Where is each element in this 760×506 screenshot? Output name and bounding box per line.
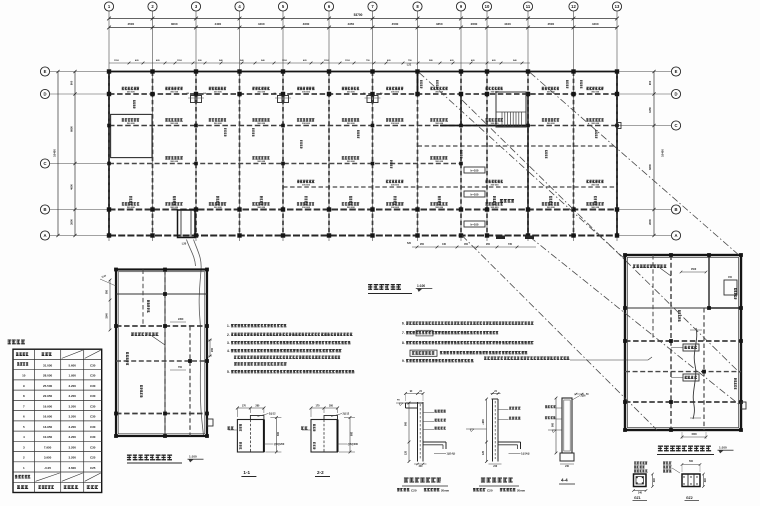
svg-text:C20: C20 [487,488,493,492]
roof detail plan: right wall tab [741,402,746,409]
machine room plan: small labels and dims [147,300,150,313]
machine room plan: left outside dims [109,280,111,330]
svg-text:600: 600 [351,431,354,436]
svg-text:19.950: 19.950 [43,404,53,408]
svg-text:3.: 3. [227,341,230,345]
main plan: row C-mid beam [109,163,461,165]
svg-text:4500: 4500 [547,22,554,26]
main plan: three slab boxes h=100 [464,167,485,173]
svg-text:10400: 10400 [53,149,57,157]
svg-text:950: 950 [106,289,109,294]
svg-text:300 600: 300 600 [347,161,356,163]
svg-text:300 600: 300 600 [591,123,600,125]
svg-text:300 600: 300 600 [302,185,311,187]
svg-text:300 600: 300 600 [257,123,266,125]
svg-text:3.200: 3.200 [68,456,76,460]
main plan: column squares [107,69,111,73]
svg-text:D: D [674,92,677,97]
svg-text:300 600: 300 600 [170,207,179,209]
svg-text:1540: 1540 [106,313,109,319]
svg-text:300 600: 300 600 [214,207,223,209]
svg-text:1.950: 1.950 [68,374,76,378]
svg-text:300 600: 300 600 [347,207,356,209]
svg-text:300 600: 300 600 [547,207,556,209]
svg-text:300 600: 300 600 [170,92,179,94]
svg-text:4350: 4350 [347,22,354,26]
svg-text:16.950: 16.950 [43,415,53,419]
main plan: secondary top dimension line [109,62,530,64]
svg-text:6.: 6. [402,322,405,326]
roof detail plan: rotated side labels [734,288,737,299]
svg-text:300 600: 300 600 [127,207,136,209]
svg-text:E: E [44,69,47,74]
svg-text:300 600: 300 600 [591,207,600,209]
svg-text:120: 120 [482,450,485,455]
svg-text:22.950: 22.950 [43,394,53,398]
svg-text:6950: 6950 [70,126,74,132]
main plan: scattered rotated dims [133,100,135,109]
main plan: vertical beams on grid lines [108,72,110,236]
svg-text:C30: C30 [90,374,96,378]
svg-text:450: 450 [464,243,469,246]
svg-text:1:100: 1:100 [719,446,727,450]
svg-text:1510: 1510 [177,60,183,62]
machine room plan: outer walls [116,270,207,437]
roof detail plan: outer walls [625,255,741,430]
svg-text:300 600: 300 600 [491,123,500,125]
svg-text:C25: C25 [90,456,96,460]
svg-text:7.950: 7.950 [44,445,52,449]
main plan: stair treads near grid 9-11 [496,92,526,127]
machine room plan: mesh leader label [131,333,158,336]
main plan: row D beam [109,93,617,95]
svg-text:300 600: 300 600 [591,185,600,187]
svg-text:240: 240 [704,478,707,483]
section 2-2 [311,420,338,453]
svg-text:3.200: 3.200 [68,435,76,439]
svg-text:5.: 5. [227,370,230,374]
svg-text:4-4: 4-4 [561,478,568,483]
main plan: row C beam [109,125,617,127]
main plan: row B heavy beam wall [109,209,617,211]
svg-text:500: 500 [689,460,694,463]
svg-text:4100: 4100 [504,22,511,26]
svg-text:12: 12 [571,4,576,9]
floor height table title [8,340,25,345]
svg-text:300 600: 300 600 [170,123,179,125]
svg-text:280: 280 [329,405,334,408]
svg-text:300 600: 300 600 [127,123,136,125]
machine room plan: column squares [114,268,118,272]
svg-text:300 600: 300 600 [547,123,556,125]
main plan: top dimension band [109,18,617,20]
svg-text:300 600: 300 600 [170,161,179,163]
svg-text:200: 200 [211,347,214,352]
svg-text:31.050: 31.050 [43,363,53,367]
svg-text:900: 900 [405,421,408,426]
svg-text:300 600: 300 600 [435,92,444,94]
main plan: solid partition walls [417,72,419,95]
svg-text:13: 13 [615,4,620,9]
roof detail plan: bottom dim [682,436,706,438]
svg-text:@8@200: @8@200 [274,443,285,446]
svg-text:1:100: 1:100 [417,284,425,288]
GZ2 column detail [682,464,700,466]
svg-text:h=100: h=100 [470,193,478,197]
svg-text:2-2: 2-2 [317,470,324,475]
svg-text:300 600: 300 600 [302,92,311,94]
svg-text:h=100: h=100 [470,223,478,227]
svg-text:3.950: 3.950 [44,456,52,460]
svg-text:300 600: 300 600 [491,92,500,94]
roof detail plan: mesh label leader [633,265,666,268]
main plan: beam labels (WKL) with size numbers [122,87,139,90]
svg-text:8300: 8300 [648,164,652,170]
main plan: outer walls [109,71,617,73]
svg-text:300 600: 300 600 [391,207,400,209]
svg-text:3.600: 3.600 [68,466,76,470]
svg-text:4500: 4500 [392,22,399,26]
break wavy curves from stair box to machine-room plan [194,240,204,437]
svg-text:950: 950 [420,243,425,246]
svg-text:1@14@: 1@14@ [447,453,456,456]
svg-text:4600: 4600 [70,184,74,190]
roof detail plan: column squares [623,253,627,257]
svg-text:300 600: 300 600 [591,92,600,94]
svg-text:2300: 2300 [178,318,184,321]
svg-text:20mm: 20mm [441,488,450,492]
svg-text:300 600: 300 600 [302,123,311,125]
roof detail plan: inner beams [625,340,741,342]
svg-text:4500: 4500 [127,22,134,26]
svg-text:C30: C30 [90,404,96,408]
main plan caption [368,284,401,290]
svg-text:300 600: 300 600 [214,123,223,125]
svg-text:300 600: 300 600 [302,207,311,209]
svg-text:2600: 2600 [70,219,74,225]
svg-text:9.: 9. [402,359,405,363]
svg-text:A: A [43,233,46,238]
svg-text:-0.05: -0.05 [44,466,51,470]
main plan: D-row column pair details at grids 3 5 7 [191,96,196,103]
roof detail plan: top inner dim [681,271,706,273]
svg-text:300 600: 300 600 [127,92,136,94]
svg-text:3000: 3000 [171,22,178,26]
svg-text:L21: L21 [407,63,412,67]
svg-text:+900: +900 [482,419,485,425]
svg-text:3.200: 3.200 [68,425,76,429]
main plan: stair enclosure at bottom grid 2-3 [178,210,196,238]
svg-text:3.200: 3.200 [68,445,76,449]
svg-text:300 600: 300 600 [257,161,266,163]
svg-text:120: 120 [405,450,408,455]
svg-text:1500: 1500 [691,433,697,436]
parapet detail middle caption [481,478,513,483]
svg-text:900: 900 [70,80,74,85]
svg-text:11: 11 [526,4,531,9]
svg-text:900: 900 [552,422,555,427]
svg-text:3.200: 3.200 [68,394,76,398]
svg-text:E: E [675,69,678,74]
svg-text:C30: C30 [90,425,96,429]
svg-text:10: 10 [485,4,490,9]
main plan: rotated bay labels below row B [129,196,132,205]
svg-text:170: 170 [316,405,321,408]
svg-text:1510: 1510 [345,60,351,62]
svg-text:300 600: 300 600 [391,92,400,94]
svg-text:C30: C30 [90,445,96,449]
svg-text:170: 170 [242,405,247,408]
svg-text:1:100: 1:100 [189,455,197,459]
svg-text:1510: 1510 [282,60,288,62]
svg-text:53700: 53700 [354,13,363,17]
floor height table grid [13,349,102,492]
svg-text:4400: 4400 [592,22,599,26]
svg-text:300 600: 300 600 [391,123,400,125]
svg-text:A: A [674,233,677,238]
GZ1 column detail [634,462,647,465]
parapet detail 3-3 caption [404,478,441,483]
main plan: partial beams [418,145,618,147]
svg-text:280: 280 [255,405,260,408]
svg-text:300 600: 300 600 [391,185,400,187]
parapet detail middle [492,399,494,462]
svg-text:1.: 1. [227,324,230,328]
roof detail plan: rebar S-curve [693,328,697,419]
svg-text:C25: C25 [90,466,96,470]
svg-text:240: 240 [638,492,643,495]
svg-text:28.050: 28.050 [43,374,53,378]
main plan: right vertical dimension lines [653,72,655,236]
svg-text:300 600: 300 600 [491,185,500,187]
svg-text:730: 730 [508,243,513,246]
svg-text:1-1: 1-1 [243,470,250,475]
svg-text:C: C [43,161,46,166]
main plan: top grid bubbles 1-13 [104,2,113,11]
svg-text:300 600: 300 600 [347,123,356,125]
main plan: room label [500,199,514,203]
svg-text:300 600: 300 600 [435,123,444,125]
main plan: left vertical dimension lines [74,72,76,236]
svg-text:300 600: 300 600 [257,207,266,209]
svg-text:C30: C30 [90,384,96,388]
main plan: right wall tab at row C [617,123,621,129]
svg-text:25.500: 25.500 [43,384,53,388]
main plan: left row bubbles E D C B A [40,67,49,76]
svg-text:950: 950 [486,243,491,246]
svg-text:4350: 4350 [436,22,443,26]
section 1-1 [237,420,264,453]
svg-text:5.600: 5.600 [68,363,76,367]
svg-text:300 600: 300 600 [435,207,444,209]
svg-text:240: 240 [653,478,656,483]
svg-text:2.: 2. [227,333,230,337]
svg-text:300 600: 300 600 [214,92,223,94]
svg-text:4400: 4400 [258,22,265,26]
machine room plan caption [127,455,172,461]
svg-text:GZ2: GZ2 [686,496,693,500]
svg-text:10.950: 10.950 [43,435,53,439]
svg-text:300 600: 300 600 [347,92,356,94]
svg-text:C30: C30 [90,435,96,439]
roof detail plan: inner top-right room [708,255,710,308]
machine room plan: right side dim bracket [209,340,211,356]
detail 4-4 [562,398,572,453]
svg-text:@8@200: @8@200 [348,443,359,446]
svg-text:300 600: 300 600 [435,161,444,163]
svg-text:440: 440 [442,243,447,246]
svg-text:C30: C30 [90,363,96,367]
svg-text:13.950: 13.950 [43,425,53,429]
roof detail plan: long leader label from left [484,357,569,360]
svg-text:20mm: 20mm [517,488,526,492]
machine room plan: inner beams [116,293,207,295]
svg-text:2600: 2600 [471,22,478,26]
svg-text:4.: 4. [227,349,230,353]
svg-text:C30: C30 [90,415,96,419]
main plan: stair exit stubs below row A [496,236,505,240]
svg-text:C: C [674,123,677,128]
main plan: small room near grid 1-2 [111,114,152,157]
svg-text:h=100: h=100 [470,169,478,173]
svg-text:8.: 8. [402,341,405,345]
svg-text:L20: L20 [182,242,187,246]
svg-text:900: 900 [648,80,652,85]
svg-text:7.: 7. [402,331,405,335]
svg-text:10400: 10400 [661,149,665,157]
svg-text:1500: 1500 [691,268,697,271]
svg-text:3.200: 3.200 [68,384,76,388]
svg-text:300 600: 300 600 [491,207,500,209]
svg-text:1250: 1250 [648,107,652,113]
roof detail plan caption [658,446,711,452]
svg-text:GZ1: GZ1 [634,496,641,500]
floor height table contents [16,352,28,356]
svg-text:D: D [43,92,46,97]
svg-text:700: 700 [178,366,183,369]
svg-text:C20: C20 [411,488,417,492]
main plan: right row bubbles E D C B A [671,67,680,76]
svg-text:1510: 1510 [114,60,120,62]
svg-text:C30: C30 [90,394,96,398]
svg-text:B: B [43,207,46,212]
svg-text:4400: 4400 [214,22,221,26]
svg-text:10: 10 [22,374,26,378]
svg-text:600: 600 [277,431,280,436]
main plan: bottom dimension band [412,246,536,248]
parapet detail 3-3 [417,402,419,462]
roof detail plan: boxed slab labels [683,344,699,351]
svg-text:300 600: 300 600 [257,92,266,94]
svg-text:2@12: 2@12 [343,413,350,416]
svg-text:B: B [674,207,677,212]
svg-text:1510: 1510 [324,60,330,62]
svg-text:3.200: 3.200 [68,415,76,419]
svg-text:2600: 2600 [648,219,652,225]
svg-text:3.200: 3.200 [68,404,76,408]
svg-text:4600: 4600 [303,22,310,26]
svg-text:1@14@: 1@14@ [521,453,530,456]
svg-text:2@12: 2@12 [269,413,276,416]
svg-text:520: 520 [407,242,412,245]
blow-up construction diagonal lines [419,73,626,261]
